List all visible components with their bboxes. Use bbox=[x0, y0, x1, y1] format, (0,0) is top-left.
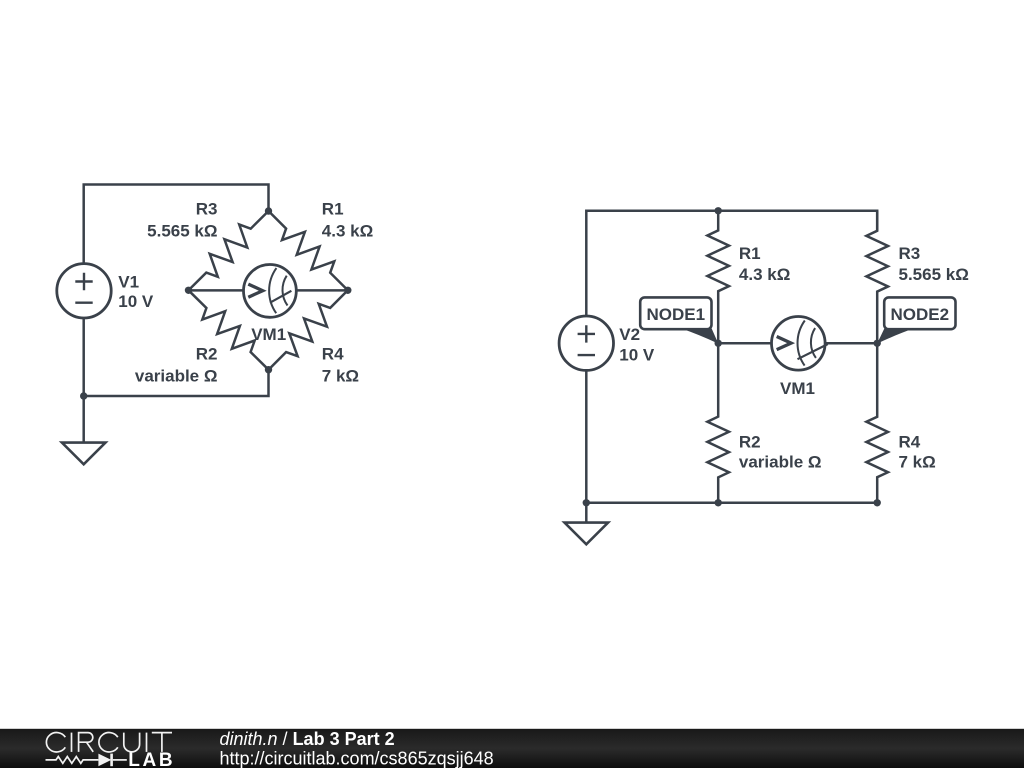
svg-text:7 kΩ: 7 kΩ bbox=[322, 366, 359, 385]
svg-text:7 kΩ: 7 kΩ bbox=[899, 453, 936, 472]
svg-text:NODE1: NODE1 bbox=[647, 305, 706, 324]
svg-text:http://circuitlab.com/cs865zqs: http://circuitlab.com/cs865zqsjj648 bbox=[220, 748, 494, 768]
svg-text:LAB: LAB bbox=[128, 750, 175, 768]
svg-text:VM1: VM1 bbox=[780, 379, 815, 398]
svg-text:variable Ω: variable Ω bbox=[739, 453, 822, 472]
svg-text:10 V: 10 V bbox=[118, 292, 154, 311]
svg-text:4.3 kΩ: 4.3 kΩ bbox=[739, 265, 790, 284]
svg-text:R4: R4 bbox=[899, 433, 921, 452]
svg-text:R2: R2 bbox=[196, 345, 218, 364]
svg-text:R2: R2 bbox=[739, 433, 761, 452]
svg-text:4.3 kΩ: 4.3 kΩ bbox=[322, 222, 373, 241]
svg-text:dinith.n / Lab 3 Part 2: dinith.n / Lab 3 Part 2 bbox=[220, 729, 395, 749]
svg-text:R1: R1 bbox=[322, 200, 344, 219]
svg-text:variable Ω: variable Ω bbox=[135, 366, 218, 385]
svg-text:10 V: 10 V bbox=[619, 345, 655, 364]
svg-text:VM1: VM1 bbox=[251, 325, 286, 344]
svg-text:5.565 kΩ: 5.565 kΩ bbox=[147, 222, 217, 241]
svg-text:5.565 kΩ: 5.565 kΩ bbox=[899, 265, 969, 284]
svg-text:R3: R3 bbox=[196, 200, 218, 219]
svg-text:R3: R3 bbox=[899, 244, 921, 263]
svg-text:R1: R1 bbox=[739, 244, 761, 263]
svg-text:V2: V2 bbox=[619, 325, 640, 344]
svg-text:R4: R4 bbox=[322, 345, 344, 364]
svg-text:NODE2: NODE2 bbox=[891, 305, 950, 324]
svg-text:V1: V1 bbox=[118, 272, 139, 291]
